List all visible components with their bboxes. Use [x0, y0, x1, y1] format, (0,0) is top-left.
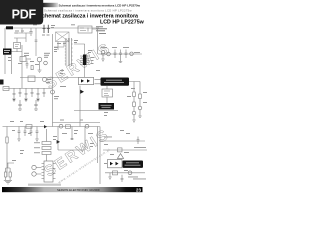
transistor Q8	[32, 172, 36, 176]
capacitor C2 C3	[43, 25, 50, 33]
footer gradient bar	[2, 187, 143, 192]
wire output rail y173	[105, 172, 145, 174]
lower-mid transistor Q4	[59, 124, 63, 128]
caps under mid rail	[12, 88, 45, 101]
label dashes lower mid	[62, 132, 93, 135]
labels near opto	[54, 86, 66, 99]
relay box K1	[12, 38, 23, 88]
watermark url lower	[57, 147, 111, 184]
wire inverter rail y141	[100, 140, 145, 142]
transistor Q3	[43, 78, 47, 82]
optocoupler U7	[108, 160, 123, 168]
label dashes mid-left	[18, 55, 39, 65]
resistor R9 on left rail	[6, 137, 8, 143]
header black block left	[2, 3, 58, 7]
transistor Q2	[44, 61, 48, 65]
bridge BD1	[56, 32, 70, 42]
label right rail	[104, 137, 146, 180]
transistor Q1	[37, 57, 42, 62]
diode D5 black	[80, 90, 84, 94]
svg-text:23: 23	[136, 188, 141, 193]
wire y110 rail	[74, 110, 118, 112]
lower-left resistors R10 R11	[4, 163, 14, 184]
right top transistor Q6	[130, 52, 133, 55]
component on y150 rail	[118, 148, 123, 152]
wire mains top bus	[5, 27, 99, 29]
black box U5	[123, 161, 144, 168]
watermark SERWIS upper	[43, 39, 115, 93]
black box U4	[99, 103, 115, 110]
wire opto down	[79, 86, 81, 127]
lower-mid transistor Q5	[85, 124, 89, 128]
ground bottom right	[108, 173, 123, 182]
transformer T1	[65, 38, 73, 66]
box on bus mid	[66, 125, 71, 129]
right chain 2	[138, 82, 142, 118]
caps mid y100-110	[18, 100, 38, 110]
labels for stack	[34, 142, 40, 153]
resistor stack R12-R14	[42, 129, 51, 161]
capacitor C1	[29, 28, 32, 36]
IC U6	[36, 161, 55, 182]
black tab left margin	[0, 80, 4, 85]
box on rail	[28, 76, 35, 82]
inverter transformer black box U3	[101, 78, 130, 86]
box B3	[20, 57, 31, 62]
fuse F1	[6, 26, 13, 29]
PDF badge	[0, 0, 43, 25]
connector left on rail	[3, 87, 9, 91]
wire left rail	[4, 28, 6, 74]
wires lower mid verticals	[58, 127, 98, 164]
wire mid rail y88	[4, 88, 52, 90]
snubber box B1	[78, 26, 98, 54]
lower-left caps on bus	[17, 127, 39, 142]
capacitor C10 right	[137, 137, 140, 145]
wire y33 ladder	[14, 28, 30, 33]
connector black box J1	[3, 49, 12, 55]
wire right lower vertical	[99, 127, 101, 185]
transistor Q7	[32, 165, 36, 169]
opto diode arrows	[81, 79, 84, 82]
capacitor C9	[71, 138, 74, 139]
transistor Q10	[51, 90, 55, 94]
box B2	[102, 86, 113, 103]
svg-text:SERWIS ELEKTRONIKI 10/2009: SERWIS ELEKTRONIKI 10/2009	[57, 188, 100, 192]
svg-text:PDF: PDF	[12, 8, 37, 22]
warning triangle	[117, 154, 123, 159]
box on lower bus	[26, 125, 32, 129]
wire right rail y54	[98, 53, 142, 55]
grounds right top	[101, 54, 122, 63]
wire feedback rail y150	[103, 149, 147, 151]
ground under Q1	[38, 62, 42, 73]
svg-text:LCD HP LP2275w: LCD HP LP2275w	[100, 19, 145, 25]
svg-text:Schemat zasilacza i inwertera: Schemat zasilacza i inwertera monitora L…	[44, 9, 132, 13]
diode D2	[44, 125, 47, 128]
wire x52 vertical main	[52, 34, 54, 127]
svg-text:Schemat zasilacza i inwertera: Schemat zasilacza i inwertera monitora L…	[59, 4, 141, 8]
resistor R20	[113, 171, 118, 175]
capacitor C4	[26, 61, 29, 69]
labels right top	[101, 47, 140, 53]
wire mid rail y77.5	[20, 77, 78, 79]
wire bridge drops	[58, 42, 64, 51]
transistor Q9	[128, 171, 132, 175]
wire lower bus	[3, 126, 100, 128]
node text top right	[96, 26, 107, 34]
wire y122.5	[53, 122, 101, 124]
optocoupler U2	[79, 77, 94, 84]
right top caps	[114, 50, 128, 59]
PWM IC U1	[83, 55, 86, 66]
value labels scattered	[8, 24, 147, 171]
ground arrows under rail	[13, 99, 39, 101]
watermark SERWIS lower	[41, 126, 113, 181]
terminal strip bar	[28, 184, 61, 186]
wire left lower vertical	[6, 127, 8, 178]
right chain 1	[129, 82, 140, 123]
svg-text:Schemat zasilacza i inwertera: Schemat zasilacza i inwertera monitora	[39, 13, 139, 19]
diode D3	[57, 140, 60, 144]
wire top-left extras	[14, 28, 64, 56]
right top transistors	[101, 51, 105, 55]
resistor R1	[31, 66, 33, 70]
